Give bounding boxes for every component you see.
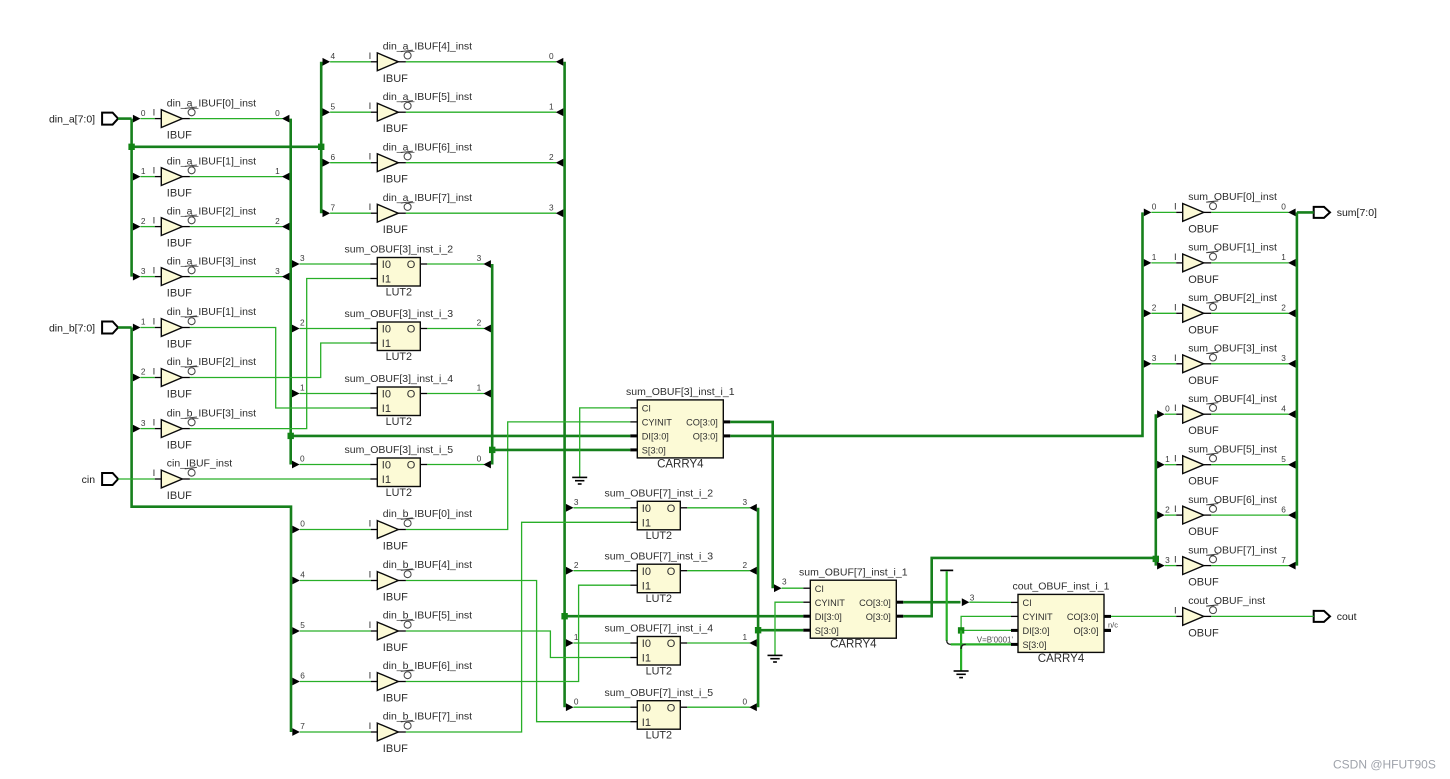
bus din_a_IBUF[3:0] <box>289 119 292 465</box>
wire din_b_IBUF[7] to LUT i_2 I1 <box>406 522 630 732</box>
svg-text:sum_OBUF[6]_inst: sum_OBUF[6]_inst <box>1188 494 1277 506</box>
wire LUT2 O bit 2 <box>687 570 750 572</box>
arrow din_a_IBUF[5] into bus <box>556 108 564 116</box>
arrow din_a_IBUF[3] into bus <box>282 273 290 281</box>
svg-text:I: I <box>369 519 372 530</box>
buffer din_a_IBUF[3]_inst <box>153 255 257 299</box>
arrow CO2 bit 3 tap <box>962 598 970 606</box>
wire sum_OBUF[7] output <box>1211 565 1288 567</box>
svg-text:O: O <box>667 566 676 578</box>
tap din_a_IBUF[3] to LUT I0 <box>292 260 300 268</box>
svg-text:CI: CI <box>642 404 651 414</box>
wire CO3 to cout OBUF <box>1111 615 1176 617</box>
svg-text:I0: I0 <box>382 324 391 336</box>
bus din_a branch to upper group <box>132 146 322 149</box>
svg-text:sum_OBUF[7]_inst_i_3: sum_OBUF[7]_inst_i_3 <box>605 550 714 562</box>
svg-text:OBUF: OBUF <box>1188 577 1219 589</box>
svg-text:IBUF: IBUF <box>383 73 408 85</box>
svg-text:0: 0 <box>574 696 579 706</box>
wire din_a_IBUF[2] output <box>190 226 283 228</box>
svg-text:IBUF: IBUF <box>167 188 192 200</box>
wire sum[0] to OBUF <box>1151 211 1176 213</box>
wire din_a_IBUF[3] to LUT I0 <box>300 263 371 265</box>
wire const1 vertical <box>946 571 948 641</box>
buffer sum_OBUF[6]_inst <box>1174 494 1277 538</box>
svg-text:sum_OBUF[3]_inst: sum_OBUF[3]_inst <box>1188 343 1277 355</box>
tap din_a_IBUF[2] to LUT I0 <box>292 325 300 333</box>
svg-text:LUT2: LUT2 <box>646 730 672 742</box>
svg-text:IBUF: IBUF <box>167 238 192 250</box>
wire din_b_IBUF[0] to carry 1 CYINIT <box>406 422 630 530</box>
svg-text:1: 1 <box>141 166 146 176</box>
svg-text:3: 3 <box>300 253 305 263</box>
junction carry 3 ground node <box>958 627 964 633</box>
buffer din_b_IBUF[0]_inst <box>369 508 473 552</box>
wire din_b[6] to IBUF <box>300 681 371 683</box>
merge arc const1 into S wire <box>947 640 952 644</box>
svg-text:I: I <box>1174 252 1177 263</box>
svg-text:I: I <box>153 317 156 328</box>
tap din_b[5] <box>292 627 300 635</box>
buffer din_a_IBUF[4]_inst <box>369 41 473 85</box>
bus S[3:0] to carry 1 <box>492 449 630 452</box>
svg-text:din_a_IBUF[6]_inst: din_a_IBUF[6]_inst <box>383 141 472 153</box>
svg-text:3: 3 <box>1281 353 1286 363</box>
LUT2 sum_OBUF[7]_inst_i_3 <box>605 550 714 605</box>
svg-text:1: 1 <box>477 383 482 393</box>
bus DI[3:0] to carry 1 <box>291 435 631 438</box>
svg-text:IBUF: IBUF <box>167 130 192 142</box>
tap din_a_IBUF[0] to LUT I0 <box>292 461 300 469</box>
svg-text:2: 2 <box>574 560 579 570</box>
port cin <box>82 473 118 486</box>
wire din_a_IBUF[7] to LUT I0 <box>574 507 631 509</box>
buffer sum_OBUF[0]_inst <box>1174 191 1277 235</box>
tap din_b[1] <box>133 324 141 332</box>
svg-text:O: O <box>407 460 416 472</box>
tap din_b[7] <box>292 728 300 736</box>
svg-text:I: I <box>153 108 156 119</box>
buffer din_a_IBUF[0]_inst <box>153 97 257 141</box>
wire LUT2 O bit 3 <box>687 507 750 509</box>
wire sum[6] to OBUF <box>1165 514 1177 516</box>
junction din_a upper group bus <box>318 144 324 150</box>
svg-text:sum_OBUF[0]_inst: sum_OBUF[0]_inst <box>1188 191 1277 203</box>
wire din_b_IBUF[2] to LUT i_3 I1 <box>190 343 370 378</box>
tap din_a[3] <box>133 273 141 281</box>
bus CO[3:0] of carry 2 <box>903 601 960 604</box>
arrow LUT1 O bit 3 <box>483 260 491 268</box>
bus S[3:0] to carry 2 <box>758 629 803 632</box>
svg-text:cout_OBUF_inst: cout_OBUF_inst <box>1188 595 1265 607</box>
svg-text:O: O <box>667 503 676 515</box>
wire din_b_IBUF[6] to LUT i_3 I1 <box>406 585 630 681</box>
arrow sum_OBUF[7] into bus <box>1288 562 1296 570</box>
svg-text:2: 2 <box>300 318 305 328</box>
svg-text:O: O <box>667 638 676 650</box>
arrow LUT1 O bit 1 <box>483 390 491 398</box>
svg-text:0: 0 <box>275 108 280 118</box>
svg-text:I0: I0 <box>382 389 391 401</box>
svg-text:3: 3 <box>275 266 280 276</box>
wire CO1[3] to carry 2 CI <box>782 587 804 589</box>
svg-text:IBUF: IBUF <box>383 174 408 186</box>
svg-text:3: 3 <box>141 418 146 428</box>
wire din_a_IBUF[6] output <box>406 162 556 164</box>
svg-text:din_b_IBUF[6]_inst: din_b_IBUF[6]_inst <box>383 660 472 672</box>
svg-text:sum_OBUF[7]_inst_i_2: sum_OBUF[7]_inst_i_2 <box>605 488 714 500</box>
svg-text:IBUF: IBUF <box>383 541 408 553</box>
svg-text:IBUF: IBUF <box>167 288 192 300</box>
svg-text:I: I <box>153 418 156 429</box>
wire carry 2 CYINIT to ground <box>775 602 803 655</box>
svg-text:6: 6 <box>1281 504 1286 514</box>
wire sum_OBUF[0] output <box>1211 211 1288 213</box>
svg-text:LUT2: LUT2 <box>646 593 672 605</box>
bus O[3:0] of carry 2 to OBUFs <box>903 558 1156 616</box>
svg-text:CARRY4: CARRY4 <box>657 458 704 470</box>
svg-text:I1: I1 <box>642 580 651 592</box>
svg-text:sum_OBUF[7]_inst: sum_OBUF[7]_inst <box>1188 544 1277 556</box>
svg-text:I1: I1 <box>382 474 391 486</box>
svg-text:1: 1 <box>1165 454 1170 464</box>
svg-text:S[3:0]: S[3:0] <box>815 626 839 636</box>
svg-text:2: 2 <box>477 318 482 328</box>
tap din_a_IBUF[6] to LUT I0 <box>566 567 574 575</box>
svg-text:din_b_IBUF[5]_inst: din_b_IBUF[5]_inst <box>383 610 472 622</box>
wire sum[3] to OBUF <box>1151 363 1176 365</box>
svg-text:I: I <box>153 367 156 378</box>
svg-text:din_b_IBUF[4]_inst: din_b_IBUF[4]_inst <box>383 559 472 571</box>
svg-text:I0: I0 <box>642 702 651 714</box>
port cout <box>1314 611 1357 623</box>
wire din_a port to bus <box>118 117 132 120</box>
wire S[3:0]=B'0001' to carry 3 <box>951 643 1011 645</box>
svg-text:sum_OBUF[2]_inst: sum_OBUF[2]_inst <box>1188 292 1277 304</box>
svg-text:DI[3:0]: DI[3:0] <box>815 612 842 622</box>
svg-text:7: 7 <box>1281 555 1286 565</box>
buffer cin_IBUF_inst <box>153 458 233 502</box>
svg-text:0: 0 <box>477 454 482 464</box>
wire sum[2] to OBUF <box>1151 312 1176 314</box>
buffer sum_OBUF[5]_inst <box>1174 443 1277 487</box>
svg-text:I: I <box>369 620 372 631</box>
bus din_a vertical <box>130 119 133 277</box>
wire sum_OBUF[4] output <box>1211 413 1288 415</box>
LUT2 sum_OBUF[7]_inst_i_5 <box>605 687 714 742</box>
wire din_b[0] to IBUF <box>300 529 371 531</box>
svg-text:sum_OBUF[5]_inst: sum_OBUF[5]_inst <box>1188 443 1277 455</box>
svg-text:sum_OBUF[3]_inst_i_1: sum_OBUF[3]_inst_i_1 <box>626 386 735 398</box>
svg-text:CYINIT: CYINIT <box>815 598 846 608</box>
svg-text:I: I <box>369 721 372 732</box>
svg-text:n/c: n/c <box>1108 620 1118 629</box>
wire din_a_IBUF[4] output <box>406 61 556 63</box>
svg-text:IBUF: IBUF <box>167 490 192 502</box>
junction sum bus upper <box>1153 556 1159 562</box>
svg-text:S[3:0]: S[3:0] <box>642 446 666 456</box>
tap din_b[6] <box>292 678 300 686</box>
svg-text:1: 1 <box>549 101 554 111</box>
tap sum[2] <box>1144 309 1152 317</box>
svg-text:I: I <box>1174 555 1177 566</box>
wire din_a_IBUF[5] to LUT I0 <box>574 642 631 644</box>
wire din_b port to bus <box>118 326 132 329</box>
tap din_a_IBUF[4] to LUT I0 <box>566 703 574 711</box>
svg-text:IBUF: IBUF <box>383 123 408 135</box>
svg-text:I1: I1 <box>382 274 391 286</box>
svg-text:3: 3 <box>1152 353 1157 363</box>
svg-text:cout: cout <box>1337 611 1357 623</box>
svg-text:I: I <box>369 101 372 112</box>
svg-text:OBUF: OBUF <box>1188 223 1219 235</box>
wire sum bus to port <box>1297 211 1314 214</box>
buffer din_b_IBUF[7]_inst <box>369 711 473 755</box>
merge arc ground wire into S wire <box>961 644 966 649</box>
tap din_b[4] <box>292 577 300 585</box>
wire din_b[2] to IBUF <box>141 377 155 379</box>
svg-text:1: 1 <box>300 383 305 393</box>
wire din_a[3] to IBUF <box>141 276 155 278</box>
svg-text:1: 1 <box>275 166 280 176</box>
bus sum[7:4] taps vertical <box>1155 414 1158 565</box>
wire sum[5] to OBUF <box>1165 464 1177 466</box>
wire din_b[5] to IBUF <box>300 630 371 632</box>
svg-text:CARRY4: CARRY4 <box>830 639 877 651</box>
arrow din_a_IBUF[4] into bus <box>556 58 564 66</box>
svg-text:OBUF: OBUF <box>1188 324 1219 336</box>
tap din_a[2] <box>133 223 141 231</box>
buffer sum_OBUF[4]_inst <box>1174 393 1277 437</box>
ground for carry 1 CI <box>572 477 587 484</box>
wire CO2[3] to carry 3 CI <box>969 601 1011 603</box>
tap sum[7] <box>1157 562 1165 570</box>
junction S[3:0] of carry 1 <box>489 447 495 453</box>
svg-text:I: I <box>153 266 156 277</box>
svg-text:OBUF: OBUF <box>1188 274 1219 286</box>
svg-text:cin: cin <box>82 474 96 486</box>
wire LUT1 O bit 2 <box>427 328 484 330</box>
svg-text:sum_OBUF[3]_inst_i_5: sum_OBUF[3]_inst_i_5 <box>345 444 454 456</box>
svg-text:OBUF: OBUF <box>1188 526 1219 538</box>
bus CO[3:0] of carry 1 <box>730 422 772 588</box>
junction DI[3:0] of carry 2 <box>561 613 567 619</box>
svg-text:O[3:0]: O[3:0] <box>866 612 891 622</box>
svg-text:2: 2 <box>549 152 554 162</box>
svg-text:1: 1 <box>742 632 747 642</box>
arrow sum_OBUF[5] into bus <box>1288 461 1296 469</box>
arrow din_a_IBUF[7] into bus <box>556 209 564 217</box>
svg-text:I0: I0 <box>382 259 391 271</box>
svg-text:LUT2: LUT2 <box>386 416 412 428</box>
svg-text:IBUF: IBUF <box>167 389 192 401</box>
tap sum[5] <box>1157 461 1165 469</box>
wire cin_IBUF to LUT i_5 I1 <box>190 478 370 480</box>
svg-text:DI[3:0]: DI[3:0] <box>1023 626 1050 636</box>
svg-text:I: I <box>369 51 372 62</box>
tap sum[4] <box>1157 410 1165 418</box>
buffer sum_OBUF[3]_inst <box>1174 343 1277 387</box>
svg-text:I1: I1 <box>642 518 651 530</box>
svg-text:din_a[7:0]: din_a[7:0] <box>49 113 95 125</box>
svg-text:1: 1 <box>1281 252 1286 262</box>
arrow sum_OBUF[1] into bus <box>1288 259 1296 267</box>
wire din_a[0] to IBUF <box>141 118 155 120</box>
wire ground node down <box>960 630 962 671</box>
LUT2 sum_OBUF[3]_inst_i_5 <box>345 444 454 499</box>
svg-text:cin_IBUF_inst: cin_IBUF_inst <box>167 458 232 470</box>
wire din_a[2] to IBUF <box>141 226 155 228</box>
arrow LUT2 O bit 3 <box>749 504 757 512</box>
tap din_a_IBUF[5] to LUT I0 <box>566 639 574 647</box>
svg-text:CARRY4: CARRY4 <box>1038 653 1085 665</box>
svg-text:OBUF: OBUF <box>1188 476 1219 488</box>
svg-text:I: I <box>153 468 156 479</box>
svg-text:O: O <box>407 389 416 401</box>
tap sum[0] <box>1144 209 1152 217</box>
svg-text:1: 1 <box>141 317 146 327</box>
bus S[3:0] of carry 1 collect <box>491 264 494 465</box>
tap din_a[1] <box>133 173 141 181</box>
svg-text:IBUF: IBUF <box>383 743 408 755</box>
svg-text:2: 2 <box>1152 303 1157 313</box>
wire din_a_IBUF[6] to LUT I0 <box>574 570 631 572</box>
svg-text:I0: I0 <box>642 638 651 650</box>
wire din_a_IBUF[5] output <box>406 111 556 113</box>
wire LUT1 O bit 0 <box>427 464 484 466</box>
svg-text:4: 4 <box>300 570 305 580</box>
svg-text:din_a_IBUF[2]_inst: din_a_IBUF[2]_inst <box>167 205 256 217</box>
svg-text:LUT2: LUT2 <box>646 530 672 542</box>
buffer din_a_IBUF[1]_inst <box>153 155 257 199</box>
buffer din_b_IBUF[1]_inst <box>153 306 257 350</box>
tap sum[1] <box>1144 259 1152 267</box>
svg-text:sum_OBUF[4]_inst: sum_OBUF[4]_inst <box>1188 393 1277 405</box>
svg-text:sum_OBUF[3]_inst_i_4: sum_OBUF[3]_inst_i_4 <box>345 373 454 385</box>
svg-text:4: 4 <box>1281 403 1286 413</box>
svg-text:I: I <box>369 152 372 163</box>
svg-text:0: 0 <box>1165 403 1170 413</box>
svg-text:IBUF: IBUF <box>167 440 192 452</box>
wire din_a[5] to IBUF <box>330 111 371 113</box>
svg-text:din_a_IBUF[4]_inst: din_a_IBUF[4]_inst <box>383 41 472 53</box>
port din_a[7:0] <box>49 113 118 126</box>
arrow LUT2 O bit 0 <box>749 703 757 711</box>
svg-text:O: O <box>667 702 676 714</box>
arrow din_a_IBUF[0] into bus <box>282 115 290 123</box>
LUT2 sum_OBUF[3]_inst_i_4 <box>345 373 454 428</box>
buffer din_b_IBUF[2]_inst <box>153 356 257 400</box>
svg-text:CSDN @HFUT90S: CSDN @HFUT90S <box>1333 758 1436 772</box>
svg-text:din_a_IBUF[5]_inst: din_a_IBUF[5]_inst <box>383 91 472 103</box>
svg-text:0: 0 <box>1281 202 1286 212</box>
LUT2 sum_OBUF[3]_inst_i_3 <box>345 308 454 363</box>
arrow din_a_IBUF[2] into bus <box>282 223 290 231</box>
svg-text:I: I <box>369 202 372 213</box>
junction S[3:0] of carry 2 <box>755 627 761 633</box>
svg-text:4: 4 <box>331 51 336 61</box>
svg-text:I: I <box>1174 403 1177 414</box>
buffer din_a_IBUF[2]_inst <box>153 205 257 249</box>
tap sum[6] <box>1157 511 1165 519</box>
tap din_b[3] <box>133 425 141 433</box>
svg-text:2: 2 <box>742 560 747 570</box>
svg-text:CYINIT: CYINIT <box>642 418 673 428</box>
svg-text:CO[3:0]: CO[3:0] <box>686 418 718 428</box>
svg-text:O[3:0]: O[3:0] <box>1073 626 1098 636</box>
bus din_a[7:4] taps vertical <box>320 62 323 213</box>
arrow sum_OBUF[2] into bus <box>1288 309 1296 317</box>
svg-text:OBUF: OBUF <box>1188 627 1219 639</box>
wire din_b[1] to IBUF <box>141 327 155 329</box>
wire carry 3 DI to ground node <box>961 629 1011 631</box>
arrow sum_OBUF[6] into bus <box>1288 511 1296 519</box>
svg-text:sum_OBUF[7]_inst_i_4: sum_OBUF[7]_inst_i_4 <box>605 623 714 635</box>
buffer cout_OBUF_inst <box>1174 595 1265 639</box>
arrow sum_OBUF[3] into bus <box>1288 360 1296 368</box>
svg-text:2: 2 <box>275 216 280 226</box>
svg-text:1: 1 <box>1152 252 1157 262</box>
svg-text:2: 2 <box>141 367 146 377</box>
svg-text:LUT2: LUT2 <box>646 665 672 677</box>
svg-text:LUT2: LUT2 <box>386 487 412 499</box>
svg-text:IBUF: IBUF <box>383 693 408 705</box>
bus din_a_IBUF[7:4] <box>563 62 566 707</box>
svg-text:din_b_IBUF[2]_inst: din_b_IBUF[2]_inst <box>167 356 256 368</box>
svg-text:I: I <box>1174 454 1177 465</box>
svg-text:din_a_IBUF[0]_inst: din_a_IBUF[0]_inst <box>167 97 256 109</box>
svg-text:I: I <box>153 216 156 227</box>
svg-text:I0: I0 <box>642 566 651 578</box>
svg-text:3: 3 <box>549 202 554 212</box>
svg-text:2: 2 <box>141 216 146 226</box>
svg-text:I1: I1 <box>642 717 651 729</box>
bus din_b vertical <box>132 328 291 733</box>
wire LUT1 O bit 1 <box>427 393 484 395</box>
wire din_b_IBUF[1] to LUT i_4 I1 <box>190 328 370 409</box>
svg-text:I: I <box>153 166 156 177</box>
svg-text:IBUF: IBUF <box>383 592 408 604</box>
wire sum[7] to OBUF <box>1165 565 1177 567</box>
svg-text:I: I <box>1174 504 1177 515</box>
svg-text:O: O <box>407 259 416 271</box>
svg-text:I1: I1 <box>642 653 651 665</box>
svg-text:3: 3 <box>970 592 975 602</box>
bus sum[7:0] collect <box>1296 212 1299 565</box>
svg-text:0: 0 <box>300 454 305 464</box>
svg-text:OBUF: OBUF <box>1188 375 1219 387</box>
svg-text:7: 7 <box>300 721 305 731</box>
svg-text:7: 7 <box>331 202 336 212</box>
svg-text:LUT2: LUT2 <box>386 351 412 363</box>
svg-text:6: 6 <box>300 671 305 681</box>
svg-text:I: I <box>1174 353 1177 364</box>
svg-text:0: 0 <box>141 108 146 118</box>
svg-text:din_b_IBUF[1]_inst: din_b_IBUF[1]_inst <box>167 306 256 318</box>
svg-text:din_a_IBUF[3]_inst: din_a_IBUF[3]_inst <box>167 255 256 267</box>
svg-text:IBUF: IBUF <box>383 224 408 236</box>
svg-text:I0: I0 <box>642 503 651 515</box>
svg-text:3: 3 <box>141 266 146 276</box>
svg-text:3: 3 <box>477 253 482 263</box>
svg-text:CYINIT: CYINIT <box>1023 612 1054 622</box>
svg-text:I1: I1 <box>382 403 391 415</box>
svg-text:6: 6 <box>331 152 336 162</box>
CARRY4 cout_OBUF_inst_i_1 <box>1011 581 1111 665</box>
svg-text:CO[3:0]: CO[3:0] <box>859 598 891 608</box>
svg-text:IBUF: IBUF <box>383 642 408 654</box>
svg-text:0: 0 <box>300 519 305 529</box>
